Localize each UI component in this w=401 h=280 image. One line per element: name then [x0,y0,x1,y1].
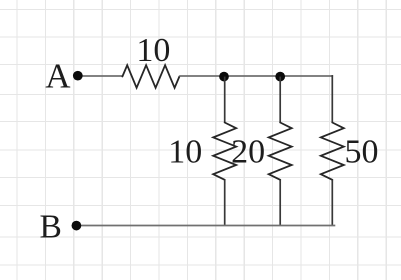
svg-text:20: 20 [231,134,265,171]
resistor R3 50 (vertical zigzag) [321,123,344,180]
wire corner down right branch [331,75,333,123]
resistor R1 10 (vertical zigzag) [213,123,236,180]
wire stub R3 bottom [331,180,333,226]
wire stub R1 bottom [224,180,226,226]
svg-text:10: 10 [136,32,170,69]
wire stub R1 top [224,77,226,123]
svg-text:10: 10 [168,134,202,171]
wire stub R2 bottom [279,180,281,226]
svg-text:50: 50 [345,134,379,171]
wire stub R2 top [279,77,281,123]
resistor R2 20 (vertical zigzag) [269,123,292,180]
node A [73,71,83,81]
wire top rail [179,75,333,77]
junction node 1 [219,72,229,82]
junction node 2 [275,72,285,82]
svg-text:B: B [40,208,62,245]
wire A to series resistor [78,75,123,77]
resistor R-series 10 (horizontal zigzag) [122,65,179,88]
node B [72,221,82,231]
wire bottom rail [76,225,335,227]
svg-text:A: A [45,57,71,96]
